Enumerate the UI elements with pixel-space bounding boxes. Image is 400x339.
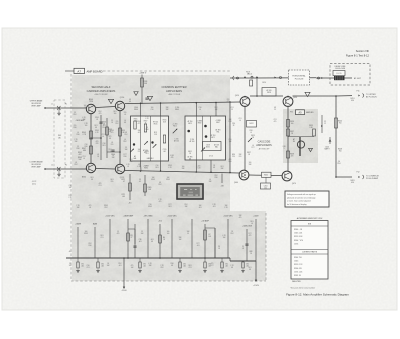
svg-text:.01: .01 — [97, 154, 99, 156]
svg-text:.001: .001 — [118, 265, 121, 267]
svg-text:R36: R36 — [124, 156, 127, 158]
svg-text:R345: R345 — [166, 179, 170, 181]
svg-text:P1: P1 — [65, 104, 67, 106]
resistor R419 — [250, 80, 253, 86]
power line x247 — [246, 229, 248, 261]
svg-text:L4: L4 — [239, 120, 241, 122]
resistor R436 — [287, 120, 290, 128]
svg-text:AMP BOARD: AMP BOARD — [87, 70, 103, 74]
svg-text:100: 100 — [84, 105, 87, 107]
svg-text:R364 * 470: R364 * 470 — [294, 240, 303, 242]
resistor R437 — [287, 129, 290, 136]
svg-text:.001: .001 — [163, 151, 166, 153]
resistor R352 — [106, 127, 109, 135]
wire node2 — [106, 118, 108, 158]
svg-text:Q474: Q474 — [292, 183, 296, 185]
note box — [285, 191, 329, 207]
svg-text:R 31: R 31 — [154, 132, 157, 134]
svg-text:R52: R52 — [231, 233, 234, 235]
svg-text:DELETED: DELETED — [292, 281, 301, 283]
svg-text:+CE AMP: +CE AMP — [201, 220, 210, 223]
board label A7 AMP BOARD — [74, 68, 85, 73]
svg-text:C30: C30 — [156, 165, 159, 167]
svg-text:J2: J2 — [51, 165, 53, 167]
svg-text:R36: R36 — [85, 146, 88, 148]
wire drop box2 top a — [195, 103, 197, 116]
pot R425 — [248, 138, 252, 142]
svg-text:-150V: -150V — [121, 290, 127, 292]
svg-text:R36: R36 — [77, 148, 80, 150]
svg-text:C91: C91 — [274, 119, 277, 121]
wire main top — [125, 102, 240, 104]
svg-text:100: 100 — [264, 187, 267, 189]
transistor Q374 — [115, 164, 124, 173]
svg-text:.001: .001 — [183, 265, 186, 267]
wire output bottom — [336, 176, 352, 178]
svg-text:R52: R52 — [130, 159, 133, 161]
svg-text:Q434: Q434 — [293, 97, 297, 99]
svg-text:R77: R77 — [169, 204, 172, 206]
transistor Q474 — [282, 171, 292, 181]
svg-text:HORIZONTAL: HORIZONTAL — [292, 74, 306, 77]
svg-text:100: 100 — [85, 125, 88, 127]
svg-text:.001: .001 — [101, 265, 104, 267]
svg-text:R61: R61 — [189, 265, 192, 267]
shunt group x140 — [139, 258, 141, 262]
svg-text:68: 68 — [249, 269, 251, 271]
svg-text:+BB: +BB — [220, 186, 223, 188]
svg-text:R36: R36 — [77, 134, 80, 136]
svg-text:470: 470 — [117, 233, 120, 235]
svg-text:R612: R612 — [173, 125, 177, 127]
svg-text:R61: R61 — [101, 235, 104, 237]
junction dots — [140, 103, 142, 105]
svg-text:68: 68 — [95, 127, 97, 129]
wire input bottom — [44, 168, 46, 170]
svg-text:R52: R52 — [109, 149, 112, 151]
svg-text:R52: R52 — [215, 107, 218, 109]
resistor R355 — [119, 128, 122, 136]
resistor R444 — [335, 118, 338, 128]
box horizontal plug-in — [289, 70, 310, 85]
svg-text:R371: R371 — [121, 179, 125, 181]
svg-text:R364 470: R364 470 — [294, 268, 302, 270]
test point triangle TP4 — [305, 92, 310, 96]
test point triangle TP1 — [108, 99, 113, 103]
svg-text:R61: R61 — [169, 206, 172, 208]
svg-text:R438: R438 — [290, 154, 294, 156]
svg-text:R345: R345 — [168, 165, 172, 167]
svg-text:AMPLIFIERS: AMPLIFIERS — [256, 143, 272, 147]
svg-text:L4: L4 — [252, 145, 254, 147]
svg-text:R52: R52 — [185, 204, 188, 206]
wire to delay — [316, 77, 334, 79]
connector at board edge — [233, 76, 234, 80]
svg-text:C5: C5 — [77, 146, 79, 148]
svg-text:220: 220 — [239, 156, 242, 158]
chain x145 — [144, 175, 146, 196]
power misc ties — [128, 228, 135, 230]
box2 dividers — [195, 116, 197, 160]
svg-text:C315: C315 — [163, 149, 167, 151]
svg-text:R77: R77 — [252, 147, 255, 149]
shunt group x180 — [179, 258, 181, 262]
svg-text:220: 220 — [96, 143, 99, 145]
wire Q464-Q474 — [249, 174, 282, 177]
svg-text:COMMON EMITTER: COMMON EMITTER — [161, 85, 186, 89]
wire output top — [336, 95, 352, 97]
svg-text:L4: L4 — [251, 223, 253, 225]
shunt group x205 — [204, 258, 206, 262]
svg-text:C30: C30 — [151, 109, 154, 111]
svg-text:470: 470 — [274, 121, 277, 123]
svg-text:R52: R52 — [119, 263, 122, 265]
svg-text:C91: C91 — [101, 237, 104, 239]
svg-text:C5: C5 — [69, 263, 71, 265]
svg-text:Q354: Q354 — [120, 97, 124, 99]
box gain switching 2 — [185, 116, 226, 160]
plate photo graticule — [177, 184, 203, 199]
svg-text:.01: .01 — [218, 248, 220, 250]
svg-text:+300V: +300V — [253, 216, 259, 218]
svg-text:R315: R315 — [163, 120, 167, 122]
test point triangle TP2 — [147, 96, 152, 100]
shunt group x78 — [77, 258, 79, 262]
svg-text:450: 450 — [351, 182, 354, 184]
svg-text:C30: C30 — [103, 143, 106, 145]
svg-text:-DEC BIAS: -DEC BIAS — [144, 215, 154, 218]
svg-text:R605: R605 — [175, 109, 179, 111]
svg-text:C91: C91 — [99, 185, 102, 187]
svg-text:R61: R61 — [91, 177, 94, 179]
svg-text:68: 68 — [124, 122, 126, 124]
svg-text:+300V DEC: +300V DEC — [167, 216, 177, 218]
svg-text:470: 470 — [138, 123, 141, 125]
svg-text:R61: R61 — [114, 111, 117, 113]
svg-text:C420: C420 — [262, 82, 266, 84]
svg-text:470: 470 — [109, 136, 112, 138]
wire drop box1 bottom a — [140, 161, 143, 171]
svg-text:C91: C91 — [189, 267, 192, 269]
svg-text:100: 100 — [69, 265, 72, 267]
svg-text:R6: R6 — [163, 237, 165, 239]
svg-text:AT 4017: AT 4017 — [354, 77, 361, 80]
svg-text:1.5K: 1.5K — [154, 134, 157, 136]
wire right bus vertical — [335, 96, 337, 177]
svg-text:470: 470 — [99, 183, 102, 185]
box1 col2 parts — [151, 141, 153, 143]
svg-text:470: 470 — [111, 132, 114, 134]
svg-text:12: 12 — [324, 123, 326, 125]
resistor R345 — [90, 131, 93, 139]
svg-text:220: 220 — [232, 156, 235, 158]
wire drop box1 right — [160, 103, 162, 116]
svg-text:+CASCODE: +CASCODE — [242, 225, 253, 228]
svg-text:MAIN BD: MAIN BD — [306, 111, 314, 114]
svg-text:P11: P11 — [357, 91, 360, 93]
svg-text:L4: L4 — [124, 120, 126, 122]
svg-text:C30: C30 — [87, 265, 90, 267]
svg-text:.01: .01 — [124, 114, 126, 116]
svg-text:C5: C5 — [274, 109, 276, 111]
svg-text:C5: C5 — [242, 246, 244, 248]
svg-text:100: 100 — [114, 113, 117, 115]
svg-text:1K: 1K — [250, 253, 252, 255]
power line x228 — [227, 219, 229, 258]
svg-text:.01: .01 — [112, 155, 114, 157]
resistor R347 — [90, 146, 93, 154]
svg-text:C 350: C 350 — [190, 139, 194, 141]
svg-text:470: 470 — [96, 141, 99, 143]
svg-text:R428: R428 — [267, 92, 271, 94]
svg-text:66: 66 — [247, 73, 249, 75]
shunt group x243 — [242, 261, 244, 262]
transistor Q454 small — [297, 141, 304, 148]
wire Q424-Q464 — [244, 106, 246, 170]
svg-text:470: 470 — [229, 159, 232, 161]
svg-text:R52: R52 — [75, 164, 78, 166]
svg-text:C30: C30 — [229, 139, 232, 141]
svg-text:L4: L4 — [250, 132, 252, 134]
shaded region main board — [72, 75, 266, 281]
box R462 — [262, 172, 272, 177]
wire node — [100, 115, 102, 160]
svg-text:100: 100 — [85, 231, 88, 233]
shunt group x98 — [97, 258, 99, 262]
box small relay — [262, 88, 276, 97]
svg-text:.01: .01 — [138, 164, 140, 166]
svg-text:CARRIER AMPLIFIERS: CARRIER AMPLIFIERS — [87, 89, 116, 93]
svg-text:CURRENT PARTS: CURRENT PARTS — [302, 251, 318, 254]
svg-text:R61: R61 — [146, 153, 149, 155]
svg-text:C91: C91 — [81, 264, 84, 266]
svg-text:R381 1K: R381 1K — [294, 275, 302, 277]
transistor Q364 — [86, 163, 95, 172]
svg-text:R471: R471 — [211, 137, 215, 139]
svg-text:8.2K: 8.2K — [163, 121, 166, 123]
svg-text:C91: C91 — [231, 107, 234, 109]
svg-text:R61: R61 — [251, 221, 254, 223]
svg-text:470: 470 — [131, 265, 134, 267]
svg-text:C91: C91 — [246, 264, 249, 266]
diode CR446 — [329, 137, 331, 144]
svg-text:1000 A OHM: 1000 A OHM — [335, 67, 346, 70]
svg-text:R345: R345 — [84, 233, 88, 235]
power bus — [66, 257, 230, 259]
svg-text:220: 220 — [227, 99, 230, 101]
transistor Q434 — [283, 97, 293, 107]
svg-text:R625: R625 — [188, 123, 192, 125]
svg-text:C30: C30 — [198, 167, 201, 169]
svg-text:R61: R61 — [103, 145, 106, 147]
svg-text:Q464: Q464 — [234, 182, 238, 184]
svg-text:for 10 divisions of display.: for 10 divisions of display. — [287, 203, 307, 206]
svg-text:R7: R7 — [209, 234, 211, 236]
svg-text:R868: R868 — [198, 122, 202, 124]
svg-text:470: 470 — [171, 157, 174, 159]
svg-text:Figure 8-12. Main Amplifier S: Figure 8-12. Main Amplifier Schematic Di… — [286, 293, 349, 297]
svg-text:R344 - 1K: R344 - 1K — [294, 229, 303, 231]
table frame — [291, 221, 328, 280]
wire horiz in block — [288, 136, 314, 138]
svg-text:+C 356: +C 356 — [173, 124, 178, 126]
power line x128 — [127, 219, 129, 258]
svg-text:100: 100 — [167, 231, 170, 233]
svg-text:(DC): (DC) — [32, 184, 36, 186]
svg-text:1K: 1K — [163, 239, 165, 241]
capacitor C345 — [99, 121, 102, 123]
svg-text:C371: C371 — [121, 194, 125, 196]
svg-text:C 350: C 350 — [175, 107, 179, 109]
svg-text:C5: C5 — [231, 109, 233, 111]
svg-text:R52: R52 — [130, 161, 133, 163]
svg-text:R36: R36 — [229, 161, 232, 163]
connector output top — [363, 94, 364, 98]
wire tie a — [91, 137, 101, 139]
svg-text:C30: C30 — [199, 107, 202, 109]
svg-text:C30: C30 — [85, 144, 88, 146]
svg-text:-8.6: -8.6 — [69, 251, 72, 253]
delay line element — [334, 76, 345, 80]
svg-text:.01: .01 — [111, 142, 113, 144]
svg-text:R52: R52 — [105, 207, 108, 209]
svg-text:or norm. Gain control adjusted: or norm. Gain control adjusted — [287, 200, 311, 203]
wire main bottom — [125, 171, 239, 174]
transistor Q464 — [239, 170, 249, 180]
svg-text:TP56: TP56 — [89, 101, 93, 103]
svg-text:450: 450 — [351, 100, 354, 102]
svg-text:C5: C5 — [74, 112, 76, 114]
svg-text:R77: R77 — [249, 233, 252, 235]
between-box components — [173, 129, 178, 134]
svg-text:C91: C91 — [83, 156, 86, 158]
svg-text:R36: R36 — [171, 263, 174, 265]
svg-text:C374 .005: C374 .005 — [294, 271, 302, 273]
svg-text:220: 220 — [111, 181, 114, 183]
transistor Q354 — [115, 101, 124, 110]
svg-text:220: 220 — [124, 112, 127, 114]
svg-text:R52: R52 — [99, 111, 102, 113]
capacitor C331 — [145, 97, 148, 99]
box gain switching 1 — [131, 116, 169, 161]
wire drop box1 left — [140, 103, 142, 116]
svg-text:R36: R36 — [215, 177, 218, 179]
svg-text:L4: L4 — [124, 139, 126, 141]
svg-text:C446: C446 — [325, 147, 329, 149]
svg-text:R52: R52 — [89, 243, 92, 245]
wire emitter column Q344 — [90, 114, 92, 163]
wire drop box2 bottom b — [210, 160, 212, 172]
connector pair — [251, 76, 253, 78]
svg-text:.001: .001 — [246, 265, 249, 267]
svg-text:C5: C5 — [111, 120, 113, 122]
power line x215 — [214, 228, 216, 258]
svg-text:750: 750 — [339, 123, 342, 125]
power line x135 — [134, 224, 136, 258]
svg-text:+CARR AMP: +CARR AMP — [123, 215, 134, 218]
delay line dashed box — [330, 64, 370, 86]
svg-text:R439: R439 — [309, 125, 313, 127]
power line x205 — [204, 224, 206, 258]
svg-text:R355 3.3K: R355 3.3K — [294, 236, 303, 238]
svg-text:R345: R345 — [95, 130, 99, 132]
svg-text:.001: .001 — [225, 265, 228, 267]
svg-text:CASCODE: CASCODE — [258, 140, 271, 144]
svg-text:R365: R365 — [148, 187, 152, 189]
svg-text:R467: R467 — [216, 122, 220, 124]
svg-text:R685: R685 — [144, 167, 148, 169]
wire drop box2 top b — [215, 103, 217, 117]
svg-text:.005: .005 — [122, 196, 125, 198]
svg-text:.01: .01 — [96, 119, 98, 121]
svg-text:68: 68 — [274, 107, 276, 109]
svg-text:Q374: Q374 — [120, 177, 124, 179]
interconnect cable W1 dashed box — [54, 100, 65, 178]
svg-text:ALTERNATE MERCURY CRU: ALTERNATE MERCURY CRU — [297, 217, 323, 220]
svg-text:R427: R427 — [247, 152, 251, 154]
svg-text:C3: C3 — [139, 179, 141, 181]
svg-text:10K: 10K — [208, 236, 211, 238]
wire input top — [44, 107, 46, 109]
svg-text:100: 100 — [151, 107, 154, 109]
svg-text:R305: R305 — [134, 119, 138, 121]
svg-text:R52: R52 — [159, 184, 162, 186]
label box R422 — [247, 121, 257, 128]
wire Q364-Q374 — [96, 168, 115, 171]
wire tie b — [107, 151, 120, 153]
svg-text:AMPLIFIERS: AMPLIFIERS — [166, 89, 182, 93]
svg-text:.001: .001 — [212, 206, 215, 208]
svg-text:R422: R422 — [249, 123, 253, 125]
box1 col1 parts — [144, 124, 146, 132]
svg-text:R61: R61 — [95, 125, 98, 127]
wire top path from board — [230, 77, 316, 79]
svg-text:R345: R345 — [148, 206, 152, 208]
svg-text:680: 680 — [83, 150, 86, 152]
svg-text:470: 470 — [211, 263, 214, 265]
capacitor C356 — [111, 149, 114, 151]
svg-text:B364: B364 — [82, 176, 86, 178]
svg-text:R36: R36 — [89, 245, 92, 247]
svg-text:C7 25: C7 25 — [209, 156, 213, 158]
svg-text:C91: C91 — [225, 264, 228, 266]
svg-text:C91: C91 — [101, 264, 104, 266]
small box in delay — [333, 71, 345, 76]
wire drop box2 bottom a — [195, 160, 197, 172]
svg-text:R88: R88 — [250, 251, 253, 253]
svg-text:C91: C91 — [239, 118, 242, 120]
svg-text:C358: C358 — [206, 145, 210, 147]
svg-text:.01: .01 — [75, 162, 77, 164]
svg-text:R77: R77 — [211, 265, 214, 267]
svg-text:100: 100 — [182, 166, 185, 168]
minus150 feed — [123, 258, 125, 288]
resistor R439 — [313, 129, 316, 136]
power line x256 — [255, 219, 257, 261]
svg-text:Figure 8-1 Text 8-12: Figure 8-1 Text 8-12 — [346, 54, 370, 58]
wire drop box1 bottom b — [160, 161, 162, 171]
svg-text:C345: C345 — [294, 261, 298, 263]
transistor Q424 — [240, 97, 250, 107]
svg-text:R345: R345 — [110, 130, 114, 132]
svg-text:.02: .02 — [242, 248, 244, 250]
svg-text:7K: 7K — [233, 125, 235, 127]
svg-text:R307: R307 — [144, 121, 148, 123]
svg-text:C9: C9 — [218, 246, 220, 248]
svg-text:L4: L4 — [77, 132, 79, 134]
wire after delay — [345, 77, 353, 79]
svg-text:.001: .001 — [196, 245, 199, 247]
